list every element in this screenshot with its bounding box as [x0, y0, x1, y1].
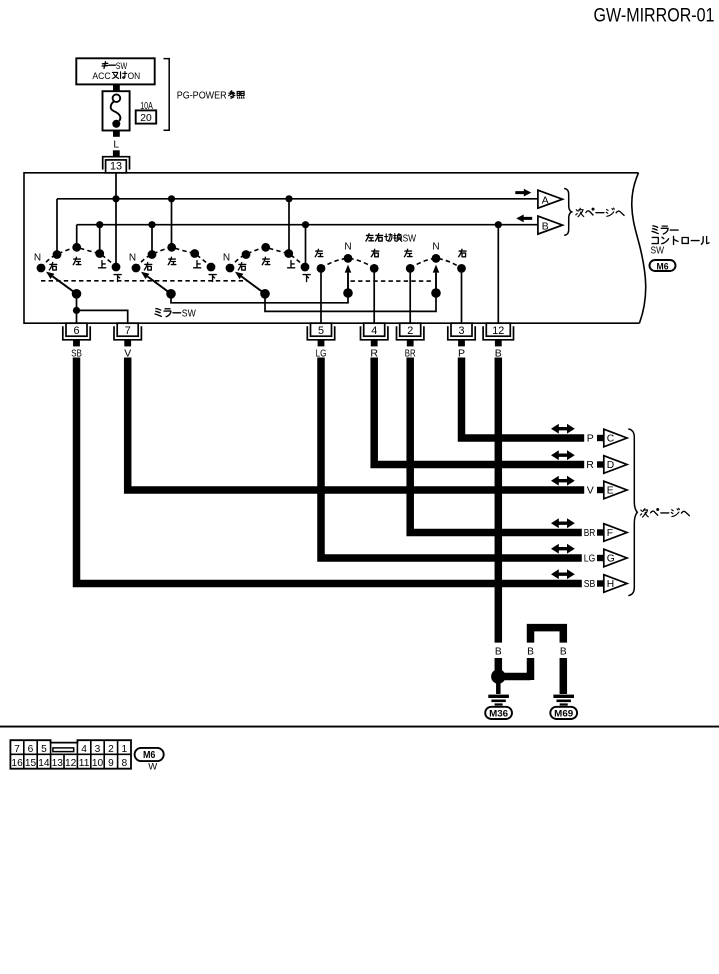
svg-text:N: N	[129, 252, 136, 263]
fuse F 10A	[103, 91, 130, 130]
mirror SW group 2 contacts N/migi/hidari/ue/shita	[132, 264, 141, 273]
thick wire LG: terminal 5 to arrow G	[321, 358, 582, 559]
svg-text:SB: SB	[584, 578, 596, 590]
mirror SW group 1 contacts N/migi/hidari/ue/shita	[37, 264, 46, 273]
svg-text:PG-POWER: PG-POWER	[177, 90, 227, 101]
page link triangle A	[538, 190, 563, 208]
thick wire BR: terminal 2 to arrow F	[410, 358, 582, 533]
mirror control SW box (M6) with torn right edge	[24, 173, 639, 323]
svg-text:15: 15	[25, 758, 37, 769]
svg-text:14: 14	[38, 758, 50, 769]
connector terminal 12 (B wire)	[483, 326, 513, 340]
brace and next-page label (top)	[564, 188, 571, 235]
thick wire R: terminal 4 to arrow D	[374, 358, 584, 465]
svg-text:B: B	[527, 646, 534, 657]
svg-text:W: W	[148, 761, 157, 772]
bracket: PG-POWER reference	[164, 59, 170, 131]
svg-text:F: F	[607, 528, 613, 539]
svg-text:20: 20	[140, 113, 152, 124]
pin square above fuse	[113, 85, 120, 92]
double arrow and page link triangle F (BR wire)	[551, 518, 575, 528]
svg-text:C: C	[607, 434, 615, 445]
wire: branch from wiper1 wire to terminal 7	[77, 310, 128, 323]
wire: selector1 migi to terminal 4	[373, 268, 375, 323]
svg-text:E: E	[607, 486, 614, 497]
svg-text:N: N	[344, 242, 351, 253]
svg-text:M36: M36	[489, 708, 508, 719]
svg-text:B: B	[542, 221, 549, 232]
svg-text:BR: BR	[584, 527, 596, 539]
svg-text:LG: LG	[584, 553, 596, 565]
connector terminal 4 (R wire)	[361, 326, 388, 340]
thick wire V: terminal 7 to arrow E	[128, 358, 585, 491]
svg-text:16: 16	[11, 758, 23, 769]
svg-text:7: 7	[14, 744, 20, 755]
mechanical coupling (dashed) mirror SW wipers	[41, 280, 247, 282]
connector terminal 7 (V wire)	[114, 326, 141, 340]
wire: line2 to contact migi-2	[151, 225, 153, 254]
wire: wiper1 down to terminal 6	[76, 294, 78, 323]
mechanical coupling (dashed) selector SW wipers	[351, 280, 434, 282]
brace and next-page label (bottom)	[628, 429, 637, 596]
wire: line1 to contact hidari-2	[171, 199, 173, 248]
connector terminal 6 (SB wire)	[63, 326, 90, 340]
svg-text:R: R	[586, 459, 594, 471]
wire: selector2 migi to terminal 3	[461, 268, 463, 323]
connector terminal 13	[103, 157, 130, 170]
svg-text:D: D	[607, 460, 614, 471]
svg-text:B: B	[495, 646, 502, 657]
svg-text:9: 9	[108, 758, 114, 769]
mirror SW label	[155, 309, 161, 317]
double arrow and page link triangle H (SB wire)	[551, 569, 575, 579]
svg-text:1: 1	[121, 744, 127, 755]
junction dots on bus lines	[112, 195, 119, 202]
component name: mirror control SW	[652, 226, 658, 234]
svg-text:12: 12	[65, 758, 77, 769]
page link triangle B	[538, 216, 563, 234]
svg-text:M6: M6	[657, 261, 669, 272]
svg-text:13: 13	[52, 758, 64, 769]
connector oval M6	[650, 260, 676, 271]
svg-text:GW-MIRROR-01: GW-MIRROR-01	[594, 6, 715, 27]
pin square above connector 13	[113, 150, 120, 156]
svg-text:7: 7	[125, 325, 131, 337]
svg-text:2: 2	[108, 744, 114, 755]
svg-text:SW: SW	[651, 245, 665, 256]
svg-text:11: 11	[79, 758, 90, 769]
svg-text:SW: SW	[116, 61, 128, 71]
double arrow and page link triangle G (LG wire)	[551, 544, 575, 554]
svg-text:2: 2	[407, 325, 413, 337]
svg-text:P: P	[587, 433, 594, 445]
footer separator line	[0, 726, 719, 728]
svg-text:6: 6	[28, 744, 34, 755]
svg-text:SW: SW	[403, 234, 417, 245]
svg-text:8: 8	[121, 758, 127, 769]
double arrow and page link triangle E (V wire)	[551, 476, 575, 486]
direction arrow (right) for A	[515, 189, 531, 197]
wire: line2 to contact ue-1	[99, 225, 101, 254]
wire: selector1 hidari to terminal 5	[320, 268, 322, 323]
pin square below fuse	[113, 131, 120, 137]
svg-text:M69: M69	[554, 708, 573, 719]
wire: line2 end down to contact hidari-1	[76, 225, 78, 247]
mirror SW contact arcs (dashed)	[41, 247, 116, 268]
wire: line1 end down to contact migi-1	[56, 199, 58, 255]
ground symbol M69	[553, 695, 574, 698]
svg-text:4: 4	[81, 744, 87, 755]
footer connector oval M6 / W	[135, 748, 164, 761]
svg-text:H: H	[607, 579, 614, 590]
selector SW group 2 contacts hidari/N/migi	[410, 258, 461, 268]
wire: wiper3 link to selector wiper 4b	[265, 293, 436, 311]
selector SW group 1 contacts hidari/N/migi	[321, 258, 374, 268]
stub from junction dot to ground M36	[496, 682, 501, 694]
mirror SW group 3 contacts N/migi/hidari/ue/shita	[226, 264, 235, 273]
svg-text:5: 5	[41, 744, 47, 755]
thick wire B: terminal 12 down to ground junction	[495, 358, 503, 643]
wire: 13 feed down to contact shita-1 (crosses line1 junction)	[115, 173, 117, 267]
connector terminal 5 (LG wire)	[307, 326, 334, 340]
svg-text:SW: SW	[182, 309, 196, 320]
footer connector face M6 pin layout	[10, 740, 131, 769]
wire: bus line 2 (to arrow B)	[77, 224, 538, 226]
svg-text:4: 4	[371, 325, 377, 337]
svg-text:5: 5	[318, 325, 324, 337]
svg-text:3: 3	[95, 744, 101, 755]
svg-text:3: 3	[458, 325, 464, 337]
svg-text:12: 12	[492, 325, 504, 337]
wire: wiper2 link to selector wiper 4a	[171, 293, 348, 303]
wire: branch to second ground	[498, 673, 530, 681]
svg-text:10: 10	[92, 758, 104, 769]
direction arrow (left) for B	[516, 215, 532, 223]
wiper 3 arrow to N contact	[241, 276, 265, 293]
connector terminal 2 (BR wire)	[397, 326, 424, 340]
thick wire SB: terminal 6 to arrow H	[77, 358, 582, 584]
wiper 5 arrow to N contact	[435, 273, 437, 293]
svg-text:M6: M6	[143, 750, 156, 761]
thick wire P: terminal 3 to arrow C	[462, 358, 585, 439]
svg-text:G: G	[607, 554, 615, 565]
svg-text:V: V	[587, 485, 594, 497]
wire: line2 to contact shita-3	[305, 225, 307, 267]
svg-text:A: A	[542, 195, 549, 206]
ground junction dot	[491, 669, 505, 683]
wire: bus line 1 (to arrow A)	[57, 198, 538, 200]
wiper 2 arrow to N contact	[147, 276, 171, 293]
wire: line2 junction down to terminal 12	[497, 225, 499, 324]
double arrow and page link triangle C (P wire)	[551, 424, 575, 434]
ground symbol M36	[488, 695, 509, 698]
double arrow and page link triangle D (R wire)	[551, 450, 575, 460]
svg-text:N: N	[432, 242, 439, 253]
svg-text:ON: ON	[128, 71, 141, 81]
connector terminal 3 (P wire)	[448, 326, 475, 340]
power source box: key SW ACC or ON	[76, 58, 154, 84]
svg-text:L: L	[113, 140, 119, 151]
svg-text:N: N	[34, 252, 41, 263]
wiper 1 arrow to N contact	[53, 276, 77, 294]
svg-text:B: B	[560, 646, 567, 657]
svg-text:13: 13	[110, 161, 122, 173]
svg-text:6: 6	[73, 325, 79, 337]
wiper 4 arrow to N contact	[347, 273, 349, 293]
wire: line1 to contact ue-3	[288, 199, 290, 254]
svg-text:ACC: ACC	[92, 71, 111, 81]
selector SW (hidari-migi) label	[366, 234, 374, 241]
svg-text:N: N	[223, 252, 230, 263]
wire: selector2 hidari to terminal 2	[409, 268, 411, 323]
